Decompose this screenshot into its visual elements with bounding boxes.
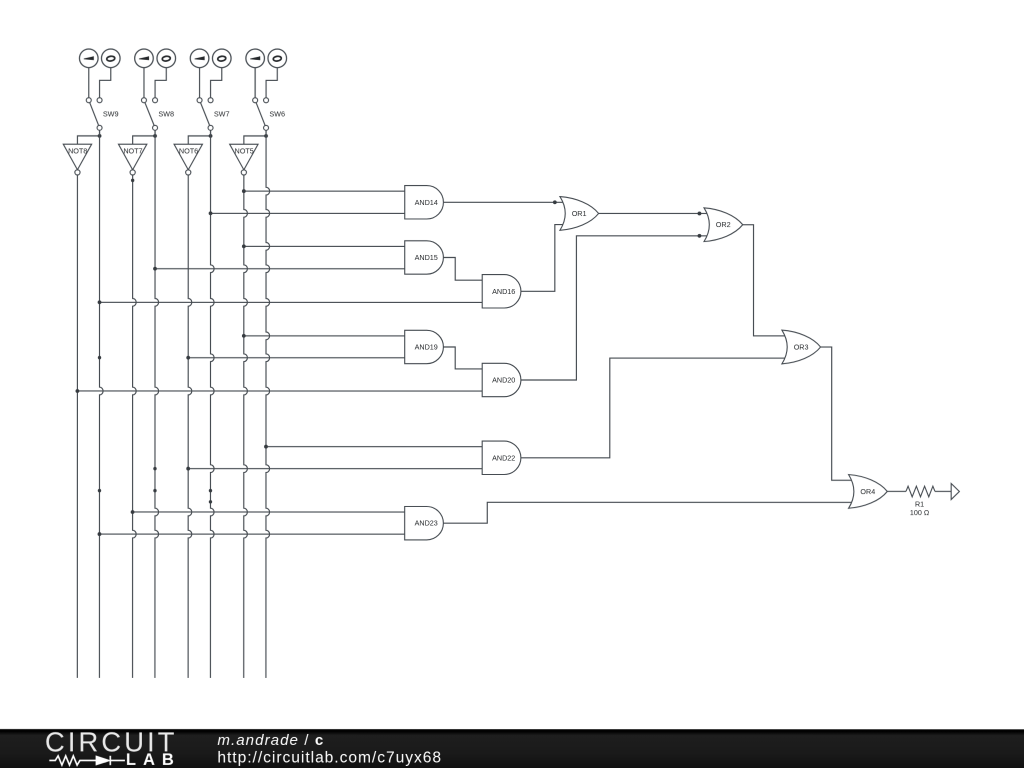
wire source-0 to SW8 throw 2 [155,68,166,98]
junction dot on bus for wire (SW9 bus to AND16 input B) [98,300,102,304]
svg-text:100 Ω: 100 Ω [910,508,930,517]
svg-text:NOT5: NOT5 [235,146,254,155]
bus wire SW9 output (vertical) [99,130,103,678]
OR gate OR2 [704,208,743,242]
wire AND22 output to OR3 input B [521,358,788,458]
junction dot on AND14-OR1 wire [553,200,557,204]
wire NOT6 bus to AND22 input B [188,468,482,470]
wire NOT8 bus to AND20 input B [77,390,482,392]
switch SW9 lever [89,100,100,128]
svg-text:NOT8: NOT8 [68,146,87,155]
wire SW6 bus to AND22 input A [266,446,482,448]
digital source "0" for SW7 [212,49,231,68]
bus wire NOT6 output (vertical) [188,175,192,678]
wire AND15 output to AND16 input A [443,257,482,280]
svg-text:LAB: LAB [126,751,181,768]
junction dot on bus for wire (SW8 bus to AND15 input B) [153,267,157,271]
svg-text:SW6: SW6 [269,109,285,118]
wire OR2 output to OR3 input A [743,225,788,336]
svg-text:AND14: AND14 [415,198,438,207]
junction dot on bus for wire (NOT6 bus to AND22 input B) [186,467,190,471]
wire source-0 to SW6 throw 2 [266,68,277,98]
CircuitLab logo resistor-diode doodle [49,756,125,765]
AND gate AND23 [405,506,444,539]
wire SW9 bus to AND23 input B [99,533,404,535]
switch SW7 throw-2 terminal [208,98,213,103]
resistor R1 [906,486,935,497]
svg-text:SW9: SW9 [103,109,119,118]
wire SW8 common to junction [154,130,156,136]
wire source-1 to SW9 throw 1 [88,67,90,97]
bus wire NOT8 output (vertical) [76,175,78,678]
wire OR1 output to OR2 input A [599,212,710,214]
wire junction to NOT8 input [77,136,99,144]
wire NOT7 bus to AND23 input A [133,511,405,513]
inverter NOT7 [118,144,146,175]
wire AND14 output to OR1 input A [443,201,566,203]
svg-text:AND23: AND23 [415,519,438,528]
svg-text:AND16: AND16 [492,287,515,296]
wire source-1 to SW7 throw 1 [199,68,201,98]
svg-text:NOT7: NOT7 [123,146,142,155]
AND gate AND20 [482,363,521,396]
wire OR4 output to resistor R1 [887,490,906,492]
svg-text:http://circuitlab.com/c7uyx68: http://circuitlab.com/c7uyx68 [217,749,442,766]
wire AND23 output to OR4 input B [443,502,854,523]
svg-text:AND22: AND22 [492,453,515,462]
wire NOT6 bus to AND19 input B [188,357,405,359]
junction dot on bus for wire (NOT7 bus to AND23 input A) [131,510,135,514]
wire source-0 to SW7 throw 2 [211,68,222,98]
AND gate AND22 [482,441,521,474]
wire NOT5 bus to AND19 input A [244,335,405,337]
OR gate OR4 [849,475,888,509]
svg-text:AND15: AND15 [415,253,438,262]
wire source-0 to SW9 throw 2 [100,67,111,97]
OR gate OR1 [560,197,599,231]
switch SW9 throw-1 terminal [86,98,91,103]
wire OR3 output to OR4 input A [821,347,855,480]
switch SW7 common terminal [208,125,213,130]
switch SW6 throw-1 terminal [253,98,258,103]
output flag terminal [951,484,959,500]
switch SW8 throw-2 terminal [153,98,158,103]
bus wire NOT5 output (vertical) [244,175,248,678]
AND gate AND15 [405,241,444,274]
junction dot on OR1-OR2 wire [698,212,702,216]
svg-text:NOT6: NOT6 [179,146,198,155]
bus wire SW6 output (vertical) [266,130,270,678]
footer bar [0,729,1024,768]
junction dot on bus for wire (SW7 bus to AND14 input B) [209,211,213,215]
inverter NOT5 [230,144,258,175]
AND gate AND19 [405,330,444,363]
wire SW9 bus to AND16 input B [100,301,483,303]
wire R1 to output flag [935,490,951,492]
svg-text:SW7: SW7 [214,109,230,118]
wire joint dot on bus x=155.0 [153,489,156,492]
junction dot on bus for wire (SW9 bus to AND23 input B) [98,532,102,536]
svg-text:AND20: AND20 [492,375,515,384]
junction dot on bus for wire (NOT5 bus to AND14 input A) [242,189,246,193]
wire junction to NOT5 input [244,136,266,144]
digital source "0" for SW6 [268,49,287,68]
switch SW9 common terminal [97,125,102,130]
AND gate AND14 [405,186,444,219]
wire AND20 output to OR2 input B [521,236,710,380]
wire joint dot on bus x=99.5 [98,356,101,359]
wire SW7 bus to AND14 input B [211,212,405,214]
digital source "1" for SW7 [190,49,209,68]
wire SW8 bus to AND15 input B [155,268,405,270]
digital source "0" for SW8 [157,49,176,68]
switch SW7 throw-1 terminal [197,98,202,103]
svg-text:SW8: SW8 [158,109,174,118]
inverter NOT8 [63,144,91,175]
digital source "1" for SW9 [79,49,98,68]
svg-text:m.andrade / c: m.andrade / c [217,732,324,749]
wire junction to NOT7 input [133,136,155,144]
wire SW7 common to junction [210,130,212,136]
junction dot on bus for wire (NOT5 bus to AND15 input A) [242,244,246,248]
AND gate AND16 [482,275,521,308]
wire joint dot on bus x=210.5 [209,500,212,503]
svg-text:OR2: OR2 [716,220,731,229]
bus wire NOT7 output (vertical) [133,175,137,678]
wire NOT5 bus to AND14 input A [244,190,405,192]
switch SW7 lever [200,100,211,128]
switch SW9 throw-2 terminal [97,98,102,103]
bus wire SW8 output (vertical) [155,130,159,678]
wire AND19 output to AND20 input A [443,347,482,369]
wire source-1 to SW6 throw 1 [254,68,256,98]
switch SW8 lever [144,100,155,128]
junction dot on AND20-OR2 wire [698,234,702,238]
wire SW6 common to junction [265,130,267,136]
switch SW6 throw-2 terminal [264,98,269,103]
bus wire SW7 output (vertical) [210,130,214,678]
switch SW6 common terminal [264,125,269,130]
junction dot on bus for wire (NOT6 bus to AND19 input B) [186,356,190,360]
junction dot on bus for wire (NOT8 bus to AND20 input B) [75,389,79,393]
wire joint dot on bus x=155.0 [153,467,156,470]
inverter NOT6 [174,144,202,175]
svg-text:OR4: OR4 [860,487,875,496]
svg-text:OR3: OR3 [794,343,809,352]
wire junction to NOT6 input [188,136,210,144]
svg-text:AND19: AND19 [415,342,438,351]
junction dot SW6/NOT5 [264,134,268,138]
wire joint dot on bus x=99.5 [98,489,101,492]
OR gate OR3 [782,330,821,364]
digital source "1" for SW6 [246,49,265,68]
junction dot on bus for wire (NOT5 bus to AND19 input A) [242,334,246,338]
wire joint dot on bus x=132.6 [131,179,134,182]
junction dot on bus for wire (SW6 bus to AND22 input A) [264,445,268,449]
switch SW6 lever [255,100,266,128]
wire source-1 to SW8 throw 1 [143,68,145,98]
junction dot SW8/NOT7 [153,134,157,138]
junction dot SW7/NOT6 [209,134,213,138]
junction dot SW9/NOT8 [98,134,102,138]
svg-text:OR1: OR1 [572,209,587,218]
switch SW8 common terminal [153,125,158,130]
wire NOT5 bus to AND15 input A [244,245,405,247]
wire AND16 output to OR1 input B [521,225,566,292]
digital source "0" for SW9 [101,49,120,68]
digital source "1" for SW8 [135,49,154,68]
wire joint dot on bus x=210.5 [209,489,212,492]
switch SW8 throw-1 terminal [141,98,146,103]
wire SW9 common to junction [99,130,101,136]
